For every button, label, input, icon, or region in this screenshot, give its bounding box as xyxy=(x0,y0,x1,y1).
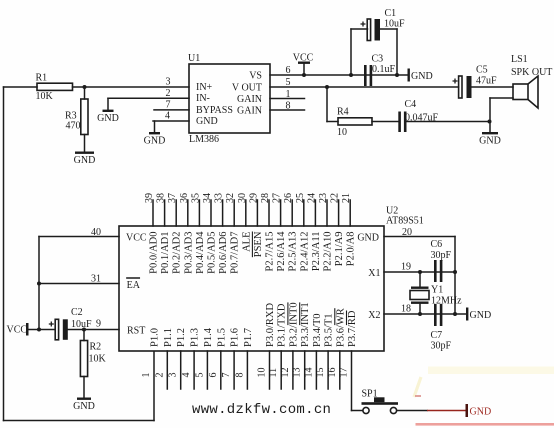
svg-text:28: 28 xyxy=(260,193,271,203)
svg-text:EA: EA xyxy=(127,280,141,291)
pin number 40 xyxy=(91,227,101,238)
svg-text:10: 10 xyxy=(257,368,268,378)
ground under speaker xyxy=(479,122,501,147)
svg-text:2: 2 xyxy=(154,373,165,378)
ground at U1 pin4 xyxy=(144,121,166,147)
svg-text:P2.3/A11: P2.3/A11 xyxy=(311,232,322,272)
svg-text:P3.7/RD: P3.7/RD xyxy=(347,310,358,347)
U2 bottom pin 11 (P3.1/TXD) xyxy=(268,303,288,389)
svg-text:P0.2/AD2: P0.2/AD2 xyxy=(172,232,183,274)
svg-text:LS1: LS1 xyxy=(511,54,528,65)
speaker LS1 xyxy=(511,54,552,108)
ground right of X2 xyxy=(466,308,491,321)
svg-text:P2.6/A14: P2.6/A14 xyxy=(276,231,287,272)
svg-text:GAIN: GAIN xyxy=(237,94,262,105)
capacitor C5 47uF xyxy=(453,65,498,99)
svg-text:30pF: 30pF xyxy=(431,341,452,352)
resistor R2 xyxy=(80,341,106,377)
svg-text:35: 35 xyxy=(190,193,201,203)
wire R1 to U1 pin3 xyxy=(73,86,190,88)
svg-text:Y1: Y1 xyxy=(431,285,443,296)
U2 top pin 35 (P0.4/AD4) xyxy=(190,193,206,274)
svg-text:26: 26 xyxy=(283,193,294,203)
U2 bottom pin 8 (P1.7) xyxy=(234,328,254,389)
U2 top pin 33 (P0.6/AD6) xyxy=(214,193,230,274)
svg-text:C4: C4 xyxy=(405,99,417,110)
svg-text:X1: X1 xyxy=(368,268,380,279)
wire U2 pin18 X2 xyxy=(384,312,466,316)
svg-text:9: 9 xyxy=(96,319,101,330)
svg-text:P3.0/RXD: P3.0/RXD xyxy=(265,303,276,347)
svg-text:P2.4/A12: P2.4/A12 xyxy=(299,232,310,272)
svg-text:SP1: SP1 xyxy=(362,389,378,400)
wire U1 pin7 stub xyxy=(154,109,189,111)
svg-text:5: 5 xyxy=(194,373,205,378)
watermark www.dzkfw.com.cn xyxy=(192,402,331,418)
svg-text:P2.1/A9: P2.1/A9 xyxy=(334,232,345,267)
U2 bottom pin 7 (P1.6) xyxy=(221,328,241,389)
U2 bottom pin 17 (P3.7/RD) xyxy=(339,310,359,410)
salmon line bottom right xyxy=(416,423,554,426)
U2 top pin 27 (P2.6/A14) xyxy=(272,193,288,271)
svg-text:38: 38 xyxy=(156,193,167,203)
U2 top pin 39 (P0.0/AD0) xyxy=(144,193,160,274)
svg-text:C5: C5 xyxy=(476,65,488,76)
ground under R2 xyxy=(73,398,95,413)
yellow highlight band xyxy=(428,367,554,375)
svg-text:P3.2/INT0: P3.2/INT0 xyxy=(288,302,299,347)
svg-text:27: 27 xyxy=(272,193,283,203)
svg-text:30pF: 30pF xyxy=(431,250,452,261)
svg-text:P1.5: P1.5 xyxy=(216,328,227,347)
U2 internal label X1 xyxy=(368,268,380,279)
wire SP1 to GND (black part) xyxy=(397,410,427,412)
svg-text:GND: GND xyxy=(74,155,96,166)
svg-text:ALE: ALE xyxy=(241,232,252,252)
svg-text:RST: RST xyxy=(127,325,145,336)
svg-text:C7: C7 xyxy=(431,330,443,341)
pin number 1 xyxy=(286,89,291,100)
svg-text:P0.7/AD7: P0.7/AD7 xyxy=(230,232,241,274)
resistor R4 xyxy=(337,107,372,139)
wire P3.7 to SP1 xyxy=(352,410,363,412)
U2 top pin 29 (PSEN) xyxy=(248,193,264,257)
svg-text:470: 470 xyxy=(66,121,81,132)
svg-text:X2: X2 xyxy=(368,310,380,321)
wire R3 top stub xyxy=(84,87,86,99)
svg-text:IN-: IN- xyxy=(196,93,210,104)
svg-text:P1.0: P1.0 xyxy=(150,328,161,347)
U2 bottom pin 2 (P1.1) xyxy=(154,328,174,389)
svg-text:P2.0/A8: P2.0/A8 xyxy=(346,232,357,267)
svg-text:13: 13 xyxy=(292,368,303,378)
svg-text:P3.6/WR: P3.6/WR xyxy=(335,308,346,347)
svg-text:AT89S51: AT89S51 xyxy=(386,216,424,227)
resistor R1 xyxy=(36,73,73,103)
svg-text:34: 34 xyxy=(202,193,213,203)
pin number 18 xyxy=(401,304,411,315)
svg-text:R4: R4 xyxy=(337,107,349,118)
pin number 8 xyxy=(286,100,291,111)
svg-text:4: 4 xyxy=(165,111,170,122)
wire R2 top stub xyxy=(83,330,85,341)
svg-text:7: 7 xyxy=(221,373,232,378)
svg-text:20: 20 xyxy=(402,227,412,238)
svg-text:P3.3/INT1: P3.3/INT1 xyxy=(300,302,311,347)
U2 bottom pin 15 (P3.5/T1) xyxy=(315,313,335,389)
svg-text:4: 4 xyxy=(181,373,192,378)
svg-text:15: 15 xyxy=(315,368,326,378)
U2 top pin 38 (P0.1/AD1) xyxy=(156,193,172,274)
ground right of C3 xyxy=(408,69,433,82)
wire C5 to speaker xyxy=(472,86,514,88)
yellow highlight diagonal xyxy=(414,377,421,397)
wire vertical VCC/EA/RST tie xyxy=(37,237,41,332)
resistor R3 xyxy=(65,99,88,135)
svg-text:V OUT: V OUT xyxy=(232,83,262,94)
svg-text:3: 3 xyxy=(168,373,179,378)
svg-text:6: 6 xyxy=(208,373,219,378)
pin number 4 xyxy=(165,111,170,122)
U2 bottom pin 3 (P1.2) xyxy=(168,328,188,389)
wire R4 to C4 xyxy=(372,121,398,123)
wire U2 pin31 EA xyxy=(39,283,119,285)
svg-text:47uF: 47uF xyxy=(476,76,497,87)
svg-text:10uF: 10uF xyxy=(384,19,405,30)
U2 internal label X2 xyxy=(368,310,380,321)
node junction R1/R3 xyxy=(83,85,87,89)
wire left vertical to R1 xyxy=(4,86,38,88)
svg-text:P0.1/AD1: P0.1/AD1 xyxy=(160,232,171,274)
svg-text:1: 1 xyxy=(141,373,152,378)
U2 bottom pin 1 (P1.0) xyxy=(141,328,161,377)
U2 internal label VCC xyxy=(126,232,147,243)
wire R3 bottom stub xyxy=(84,135,86,152)
svg-text:10K: 10K xyxy=(36,91,54,102)
ground at IN- xyxy=(97,98,119,124)
svg-text:P1.2: P1.2 xyxy=(176,328,187,347)
svg-text:GND: GND xyxy=(479,136,501,147)
svg-text:33: 33 xyxy=(214,193,225,203)
svg-text:P0.4/AD4: P0.4/AD4 xyxy=(195,231,206,274)
crystal Y1 12MHz xyxy=(410,272,462,314)
wire U1 pin4 stub xyxy=(153,120,189,122)
svg-text:2: 2 xyxy=(166,88,171,99)
svg-text:P2.5/A13: P2.5/A13 xyxy=(288,232,299,272)
U2 top pin 30 (ALE) xyxy=(237,193,253,252)
wire GND to U1 pin2 xyxy=(108,97,189,99)
wire U1 pin1 stub xyxy=(270,98,305,100)
svg-text:18: 18 xyxy=(401,304,411,315)
U2 internal label RST xyxy=(127,325,145,336)
svg-text:P1.3: P1.3 xyxy=(190,328,201,347)
svg-text:37: 37 xyxy=(167,193,178,203)
svg-text:VCC: VCC xyxy=(126,232,147,243)
wire right vertical tie xyxy=(453,237,457,317)
svg-text:P0.5/AD5: P0.5/AD5 xyxy=(207,232,218,274)
svg-text:P2.2/A10: P2.2/A10 xyxy=(323,232,334,272)
U2 top pin 28 (P2.7/A15) xyxy=(260,193,276,271)
svg-text:17: 17 xyxy=(339,368,350,378)
U2 top pin 36 (P0.3/AD3) xyxy=(179,193,195,274)
svg-text:P2.7/A15: P2.7/A15 xyxy=(265,232,276,272)
ground under R3 xyxy=(74,152,96,167)
svg-text:10uF: 10uF xyxy=(71,319,92,330)
svg-text:C1: C1 xyxy=(385,8,397,19)
svg-text:11: 11 xyxy=(268,368,279,378)
U2 top pin 23 (P2.2/A10) xyxy=(318,193,334,271)
svg-text:22: 22 xyxy=(330,193,341,203)
U2 internal label EA (overline) xyxy=(127,278,141,291)
svg-text:16: 16 xyxy=(327,368,338,378)
pin number 3 xyxy=(166,77,171,88)
capacitor C3 0.1uF xyxy=(364,54,396,87)
U2 top pin 37 (P0.2/AD2) xyxy=(167,193,183,274)
svg-text:23: 23 xyxy=(318,193,329,203)
pin number 2 xyxy=(166,88,171,99)
wire net P1.0 feedback: bottom horizontal xyxy=(4,420,155,422)
svg-text:12: 12 xyxy=(280,368,291,378)
svg-text:SPK OUT: SPK OUT xyxy=(511,67,552,78)
svg-text:GND: GND xyxy=(144,136,166,147)
svg-text:10: 10 xyxy=(337,127,347,138)
U2 top pin 21 (P2.0/A8) xyxy=(341,193,357,266)
svg-text:GND: GND xyxy=(470,406,492,417)
U2 bottom pin 4 (P1.3) xyxy=(181,328,201,389)
svg-text:29: 29 xyxy=(248,193,259,203)
op-amp U1 LM386 xyxy=(188,53,270,145)
red artifact dash xyxy=(415,395,421,397)
svg-text:21: 21 xyxy=(341,193,352,203)
svg-text:P1.6: P1.6 xyxy=(230,328,241,347)
wire C4 to speaker node xyxy=(407,120,492,124)
wire net P1.0 feedback: left vertical xyxy=(3,87,5,421)
U2 bottom pin 6 (P1.5) xyxy=(208,328,228,389)
U2 bottom pin 10 (P3.0/RXD) xyxy=(257,303,277,389)
power VCC at RST net xyxy=(7,323,56,336)
capacitor C2 10uF xyxy=(49,307,92,340)
wire C1 left leg xyxy=(349,29,368,77)
svg-text:R2: R2 xyxy=(90,342,102,353)
wire U2 pin20 GND xyxy=(384,236,455,238)
svg-text:P1.7: P1.7 xyxy=(243,328,254,347)
ground at SP1 (red) xyxy=(466,404,492,417)
svg-text:P1.1: P1.1 xyxy=(163,328,174,347)
svg-text:24: 24 xyxy=(306,193,317,203)
svg-text:BYPASS: BYPASS xyxy=(196,105,233,116)
pin number 5 xyxy=(286,77,291,88)
U2 top pin 32 (P0.7/AD7) xyxy=(225,193,241,274)
svg-text:0.1uF: 0.1uF xyxy=(372,64,396,75)
svg-text:VS: VS xyxy=(249,71,262,82)
svg-text:19: 19 xyxy=(401,262,411,273)
U2 top pin 34 (P0.5/AD5) xyxy=(202,193,218,274)
wire U1 pin5 V OUT line xyxy=(270,85,459,89)
U2 bottom pin 16 (P3.6/WR) xyxy=(327,308,347,389)
pin number 31 xyxy=(91,274,101,285)
svg-text:U1: U1 xyxy=(188,53,200,64)
svg-text:P3.1/TXD: P3.1/TXD xyxy=(277,303,288,347)
wire U1 pin6 VS line xyxy=(270,74,408,76)
svg-text:30: 30 xyxy=(237,193,248,203)
capacitor C4 0.047uF xyxy=(398,99,438,132)
svg-text:P0.6/AD6: P0.6/AD6 xyxy=(218,232,229,274)
U2 top pin 25 (P2.4/A12) xyxy=(295,193,311,271)
svg-text:C2: C2 xyxy=(71,307,83,318)
wire R2 bottom stub xyxy=(83,377,85,398)
svg-text:8: 8 xyxy=(234,373,245,378)
svg-text:C6: C6 xyxy=(431,239,443,250)
pin number 19 xyxy=(401,262,411,273)
wire C2 to U2 pin9 RST xyxy=(68,328,119,332)
U2 top pin 26 (P2.5/A13) xyxy=(283,193,299,271)
pin number 9 xyxy=(96,319,101,330)
wire branch down to R4 xyxy=(327,87,338,122)
power VCC at pin6 xyxy=(293,53,314,78)
U2 bottom pin 12 (P3.2/INT0) xyxy=(280,302,300,389)
svg-text:GAIN: GAIN xyxy=(237,105,262,116)
svg-text:14: 14 xyxy=(303,368,314,378)
wire U1 pin8 stub xyxy=(270,109,305,111)
wire P1.0 drop to bottom xyxy=(153,352,155,421)
capacitor C6 30pF xyxy=(431,239,452,282)
capacitor C7 30pF xyxy=(431,304,452,352)
svg-text:GND: GND xyxy=(97,113,119,124)
U2 bottom pin 14 (P3.4/T0) xyxy=(303,313,323,389)
svg-text:32: 32 xyxy=(225,193,236,203)
U2 bottom pin 5 (P1.4) xyxy=(194,327,214,389)
svg-text:GND: GND xyxy=(470,310,492,321)
svg-text:VCC: VCC xyxy=(7,325,28,336)
svg-text:10K: 10K xyxy=(89,354,107,365)
pin number 6 xyxy=(286,65,291,76)
capacitor C1 10uF xyxy=(361,8,406,41)
microcontroller U2 AT89S51 xyxy=(119,206,424,352)
svg-text:IN+: IN+ xyxy=(196,82,213,93)
U2 internal label GND xyxy=(357,232,379,243)
svg-text:7: 7 xyxy=(166,99,171,110)
svg-text:36: 36 xyxy=(179,193,190,203)
U2 top pin 24 (P2.3/A11) xyxy=(306,193,322,271)
svg-text:LM386: LM386 xyxy=(189,134,219,145)
svg-text:3: 3 xyxy=(166,77,171,88)
wire U2 pin19 X1 xyxy=(384,270,455,274)
svg-text:VCC: VCC xyxy=(293,53,314,64)
pin number 20 xyxy=(402,227,412,238)
pin number 7 xyxy=(166,99,171,110)
svg-text:GND: GND xyxy=(73,401,95,412)
pushbutton SP1 xyxy=(362,389,399,414)
U2 top pin 22 (P2.1/A9) xyxy=(330,193,346,266)
svg-text:P1.4: P1.4 xyxy=(203,327,214,347)
svg-text:GND: GND xyxy=(357,232,379,243)
svg-text:GND: GND xyxy=(411,71,433,82)
svg-text:P3.5/T1: P3.5/T1 xyxy=(324,313,335,347)
wire speaker bottom terminal xyxy=(490,98,513,122)
svg-text:P3.4/T0: P3.4/T0 xyxy=(312,313,323,347)
svg-text:25: 25 xyxy=(295,193,306,203)
svg-text:R1: R1 xyxy=(36,73,48,84)
svg-text:www.dzkfw.com.cn: www.dzkfw.com.cn xyxy=(192,402,331,418)
svg-text:31: 31 xyxy=(91,274,101,285)
wire U2 pin40 VCC xyxy=(39,236,119,238)
svg-text:39: 39 xyxy=(144,193,155,203)
svg-text:PSEN: PSEN xyxy=(253,231,264,257)
svg-text:40: 40 xyxy=(91,227,101,238)
svg-text:GND: GND xyxy=(196,116,218,127)
svg-text:P0.0/AD0: P0.0/AD0 xyxy=(149,232,160,274)
wire C1 right leg xyxy=(380,29,399,77)
U2 bottom pin 13 (P3.3/INT1) xyxy=(292,302,312,389)
wire SP1 to GND (red part) xyxy=(427,410,466,412)
svg-text:P0.3/AD3: P0.3/AD3 xyxy=(183,232,194,274)
